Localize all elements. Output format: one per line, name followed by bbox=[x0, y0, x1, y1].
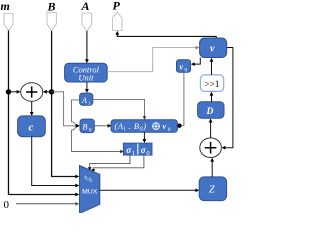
input port A bbox=[82, 13, 92, 31]
wire v to port P bbox=[117, 35, 216, 39]
register Z bbox=[199, 177, 226, 201]
svg-text:v: v bbox=[163, 122, 167, 131]
svg-text:0: 0 bbox=[146, 150, 149, 157]
wire MUX to Z bbox=[100, 189, 196, 191]
MUX bbox=[80, 166, 100, 214]
xor box (Ai.B0) xor v0 bbox=[111, 120, 177, 133]
register Ai bbox=[80, 93, 93, 105]
svg-text:0: 0 bbox=[89, 128, 92, 134]
wire sigma0 to MUX select bbox=[93, 155, 144, 169]
wire control unit to Ai bbox=[86, 82, 88, 90]
wire B tap to B0 bbox=[52, 92, 77, 126]
wire sigma1 to MUX select bbox=[90, 155, 130, 167]
register B0 bbox=[80, 119, 94, 133]
svg-text:B: B bbox=[47, 0, 56, 14]
svg-text:B: B bbox=[83, 123, 88, 132]
adder 1 bbox=[21, 83, 43, 102]
wire D to shifter bbox=[211, 95, 213, 102]
svg-text:1: 1 bbox=[132, 150, 135, 157]
svg-text:v: v bbox=[210, 44, 215, 55]
input port B bbox=[47, 13, 56, 32]
wire Ai to xor box bbox=[93, 99, 145, 116]
wire v0 to xor box bbox=[178, 72, 184, 125]
shifter >>1 bbox=[200, 75, 223, 92]
svg-text:0: 0 bbox=[185, 68, 188, 74]
svg-text:D: D bbox=[206, 107, 214, 117]
wire c to MUX bbox=[32, 137, 77, 186]
junction B tap bbox=[49, 89, 54, 94]
register v bbox=[200, 38, 227, 58]
input port m bbox=[4, 14, 13, 31]
junction m tap bbox=[6, 89, 11, 94]
wire 0 to MUX bbox=[16, 203, 77, 205]
register c bbox=[18, 116, 46, 137]
svg-text:Z: Z bbox=[209, 185, 215, 196]
svg-text:v: v bbox=[180, 63, 184, 72]
wire v to adder2 right input bbox=[225, 48, 233, 148]
wire adder2 to D bbox=[210, 122, 212, 138]
wire v to v0 bbox=[194, 58, 200, 65]
svg-text:Unit: Unit bbox=[78, 73, 94, 83]
wire xor box to sigma0 bbox=[143, 132, 145, 139]
arrowhead m to MUX bbox=[75, 193, 79, 197]
svg-text:0: 0 bbox=[4, 199, 10, 211]
wire B to adder1 bbox=[47, 91, 52, 93]
xor symbol drawn bbox=[153, 123, 160, 130]
arrowhead 0 to MUX bbox=[75, 202, 79, 206]
svg-text:>>1: >>1 bbox=[204, 80, 220, 90]
svg-text:0: 0 bbox=[168, 127, 171, 133]
register sigma0 bbox=[137, 144, 139, 155]
output port P bbox=[112, 12, 122, 31]
svg-text:A: A bbox=[81, 96, 87, 105]
junction v0-xor bbox=[177, 124, 181, 128]
register v0 bbox=[177, 60, 191, 73]
register D bbox=[198, 102, 224, 119]
wire m to adder1 bbox=[9, 91, 18, 93]
wire Z to adder2 bbox=[211, 161, 213, 177]
wire m vertical bbox=[9, 31, 77, 195]
wire B0 to xor box bbox=[94, 125, 108, 127]
control unit U1 bbox=[65, 63, 108, 82]
wire control unit to register v bbox=[107, 48, 196, 72]
wire B vertical bbox=[52, 31, 77, 177]
svg-text:A: A bbox=[81, 0, 90, 13]
svg-text:MUX: MUX bbox=[82, 189, 98, 196]
svg-text:c: c bbox=[29, 122, 34, 134]
svg-text:P: P bbox=[113, 0, 121, 13]
wire Ai to sigma1 (with hop) bbox=[72, 100, 121, 152]
wire adder1 to c bbox=[31, 101, 33, 112]
svg-text:m: m bbox=[1, 0, 10, 13]
arrowhead B to MUX bbox=[75, 175, 79, 179]
wire shifter to v bbox=[211, 61, 213, 75]
arrowhead c to MUX bbox=[75, 184, 79, 188]
wire A to control unit bbox=[86, 31, 88, 60]
register sigma1 bbox=[123, 143, 152, 155]
adder 2 bbox=[200, 138, 222, 158]
